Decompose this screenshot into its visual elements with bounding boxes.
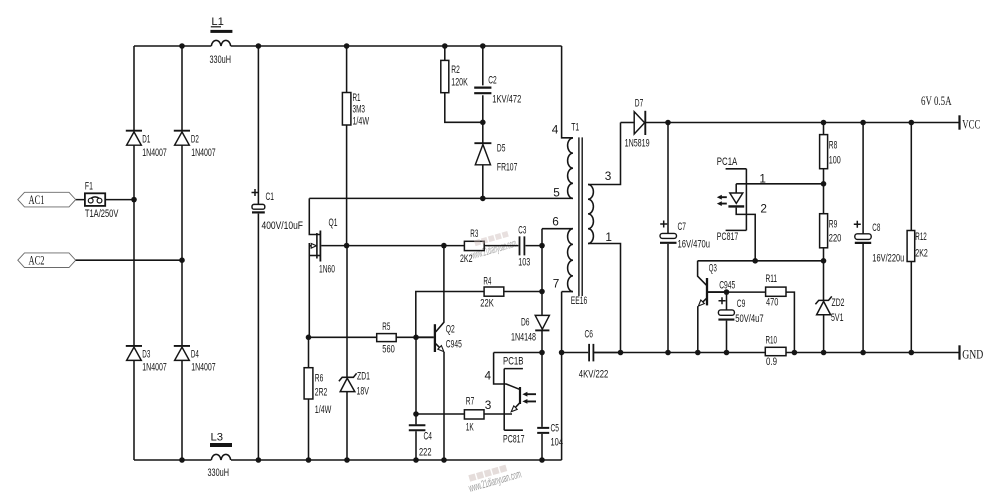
svg-text:16V/470u: 16V/470u bbox=[678, 238, 711, 250]
optocoupler PC1B PC817 bbox=[485, 353, 537, 446]
node GND rail / Q3 emitter bbox=[695, 350, 701, 356]
wire Q3 base line bbox=[727, 291, 766, 293]
node top rail / D2 column bbox=[179, 43, 185, 49]
svg-text:4: 4 bbox=[552, 122, 559, 136]
diode D1 1N4007 bbox=[126, 131, 167, 159]
capacitor C2 1KV/472 bbox=[474, 46, 521, 122]
node Q3 base / C9 bbox=[724, 289, 730, 295]
node GND rail / C9 bbox=[724, 350, 730, 356]
node bottom rail / D4 column bbox=[179, 457, 185, 463]
node VCC rail / C7 bbox=[665, 120, 671, 126]
node Q1 source / R5 / R6 bbox=[306, 335, 312, 341]
resistor R2 120K bbox=[441, 46, 483, 122]
svg-text:C6: C6 bbox=[585, 328, 594, 340]
inductor L3 330uH bbox=[208, 431, 233, 479]
svg-text:C7: C7 bbox=[678, 221, 687, 233]
svg-text:1N4007: 1N4007 bbox=[142, 147, 167, 159]
svg-text:5: 5 bbox=[553, 186, 560, 200]
wire gate line bbox=[321, 245, 464, 247]
svg-text:560: 560 bbox=[382, 344, 395, 356]
svg-text:C1: C1 bbox=[266, 191, 275, 203]
svg-text:220: 220 bbox=[829, 233, 842, 245]
svg-text:330uH: 330uH bbox=[208, 467, 230, 479]
svg-text:AC1: AC1 bbox=[29, 192, 45, 207]
resistor R10 0.9 bbox=[765, 335, 786, 369]
svg-text:VCC: VCC bbox=[962, 116, 980, 131]
svg-text:222: 222 bbox=[419, 447, 432, 459]
node GND rail / pin1 column bbox=[618, 350, 624, 356]
node VCC rail / C8 bbox=[860, 120, 866, 126]
svg-text:1N4148: 1N4148 bbox=[511, 331, 536, 343]
node GND rail / C8 bbox=[860, 350, 866, 356]
svg-text:2R2: 2R2 bbox=[315, 387, 328, 399]
transistor Q2 C945 bbox=[416, 246, 462, 460]
svg-text:5V1: 5V1 bbox=[831, 312, 844, 324]
diode D6 1N4148 bbox=[511, 315, 549, 352]
svg-text:2K2: 2K2 bbox=[915, 248, 928, 260]
svg-text:C8: C8 bbox=[872, 222, 880, 234]
node pin7 riser / C6 / bottom rail bbox=[559, 350, 565, 356]
svg-text:3: 3 bbox=[485, 398, 492, 412]
svg-text:EE16: EE16 bbox=[571, 295, 588, 307]
svg-text:1KV/472: 1KV/472 bbox=[492, 94, 521, 106]
svg-text:Q3: Q3 bbox=[709, 263, 717, 275]
wire D1/D3 column bbox=[133, 46, 135, 460]
svg-text:R11: R11 bbox=[766, 273, 778, 285]
zener ZD1 18V bbox=[339, 246, 370, 460]
capacitor C6 4KV/222 bbox=[562, 328, 621, 380]
node D6 cathode / C5 bbox=[539, 350, 545, 356]
terminal VCC bbox=[960, 115, 981, 131]
svg-text:D5: D5 bbox=[497, 143, 506, 155]
svg-text:4KV/222: 4KV/222 bbox=[579, 368, 609, 380]
svg-text:470: 470 bbox=[766, 297, 778, 309]
svg-text:22K: 22K bbox=[480, 298, 494, 310]
svg-text:100: 100 bbox=[829, 155, 841, 167]
resistor R3 2K2 bbox=[460, 228, 518, 265]
svg-text:D6: D6 bbox=[521, 316, 530, 328]
svg-text:Q1: Q1 bbox=[329, 217, 338, 229]
svg-text:C2: C2 bbox=[488, 75, 497, 87]
transistor Q1 1N60 MOSFET bbox=[309, 198, 337, 337]
wire aux winding node column bbox=[541, 229, 543, 315]
resistor R8 100 bbox=[820, 123, 841, 184]
svg-text:R8: R8 bbox=[829, 140, 838, 152]
svg-text:R2: R2 bbox=[451, 64, 460, 76]
wire top DC rail bbox=[134, 45, 562, 47]
transformer T1 EE16 bbox=[542, 46, 621, 353]
node AC1 junction bbox=[131, 197, 137, 203]
svg-text:R5: R5 bbox=[382, 321, 390, 333]
node C3 / pin6 column bbox=[539, 243, 545, 249]
capacitor C9 50V/4u7 bbox=[718, 292, 763, 352]
svg-text:R9: R9 bbox=[829, 219, 838, 231]
wire GND rail bbox=[594, 352, 960, 354]
resistor R11 470 bbox=[766, 273, 795, 353]
svg-text:1/4W: 1/4W bbox=[353, 116, 370, 128]
capacitor C3 103 bbox=[518, 225, 542, 269]
capacitor C1 400V/10uF bbox=[252, 46, 304, 460]
svg-text:PC1B: PC1B bbox=[503, 355, 524, 367]
wire Q1 drain to transformer pin 5 bbox=[309, 197, 573, 199]
wire PC1B collector rail segment bbox=[494, 352, 542, 354]
svg-text:AC2: AC2 bbox=[29, 253, 45, 268]
node bottom rail / ZD1 bbox=[344, 457, 350, 463]
node top rail / C1 column bbox=[256, 43, 262, 49]
svg-text:R3: R3 bbox=[470, 228, 478, 240]
node GND rail / R12 bbox=[909, 350, 915, 356]
svg-text:16V/220u: 16V/220u bbox=[872, 252, 904, 264]
node R5 / R4 / C4 / Q2 base bbox=[413, 335, 419, 341]
svg-text:6V 0.5A: 6V 0.5A bbox=[921, 93, 952, 108]
svg-text:R4: R4 bbox=[483, 276, 491, 288]
node PC1A pin2 / Q3 line bbox=[752, 258, 758, 264]
wire D2/D4 column bbox=[181, 46, 183, 460]
svg-text:4: 4 bbox=[485, 369, 492, 383]
wire PC1A pin1 line bbox=[736, 183, 823, 185]
svg-text:6: 6 bbox=[552, 215, 559, 229]
svg-text:C3: C3 bbox=[518, 225, 526, 237]
resistor R7 1K bbox=[416, 395, 512, 433]
resistor R4 22K bbox=[416, 276, 542, 338]
wire VCC rail bbox=[645, 122, 959, 124]
resistor R9 220 bbox=[820, 184, 842, 261]
svg-text:C945: C945 bbox=[446, 338, 462, 350]
resistor R1 3M3 bbox=[342, 46, 369, 246]
resistor R5 560 bbox=[377, 321, 397, 356]
resistor R6 2R2 bbox=[304, 337, 331, 460]
node bottom rail / R6 bbox=[306, 457, 312, 463]
node gate line / R1 bbox=[344, 243, 350, 249]
svg-text:R1: R1 bbox=[353, 92, 361, 104]
wire Q3 collector line bbox=[698, 260, 824, 262]
node R8 / R9 / pin1 bbox=[821, 181, 827, 187]
svg-text:C5: C5 bbox=[551, 423, 560, 435]
watermark bottom bbox=[465, 461, 523, 495]
svg-text:R6: R6 bbox=[315, 372, 324, 384]
svg-text:103: 103 bbox=[518, 256, 530, 268]
svg-text:T1: T1 bbox=[571, 122, 579, 134]
watermark center bbox=[468, 229, 518, 262]
terminal GND bbox=[960, 345, 984, 361]
transistor Q3 C945 bbox=[698, 261, 736, 353]
svg-text:Q2: Q2 bbox=[446, 324, 455, 336]
fuse F1 bbox=[85, 181, 119, 221]
diode D7 1N5819 bbox=[621, 98, 650, 150]
capacitor C8 16V/220u bbox=[854, 123, 905, 353]
svg-text:330uH: 330uH bbox=[210, 54, 232, 66]
svg-text:2K2: 2K2 bbox=[460, 253, 473, 265]
svg-text:D4: D4 bbox=[191, 348, 199, 360]
wire primary ground riser / pin7 bbox=[561, 292, 563, 460]
zener ZD2 5V1 bbox=[815, 261, 844, 353]
capacitor C4 222 bbox=[409, 337, 432, 460]
node top rail / R1 bbox=[344, 43, 350, 49]
node VCC rail / R8 bbox=[821, 120, 827, 126]
svg-text:F1: F1 bbox=[85, 181, 93, 193]
svg-text:120K: 120K bbox=[451, 77, 468, 89]
diode D2 1N4007 bbox=[174, 131, 216, 159]
svg-text:0.9: 0.9 bbox=[766, 356, 777, 368]
node drain line / D5 bbox=[480, 196, 486, 202]
diode D3 1N4007 bbox=[126, 346, 167, 374]
node top rail / C2 bbox=[480, 43, 486, 49]
node gate line / Q2 collector bbox=[441, 243, 447, 249]
svg-text:GND: GND bbox=[962, 347, 983, 362]
svg-text:1N4007: 1N4007 bbox=[191, 362, 216, 374]
optocoupler PC1A PC817 bbox=[717, 156, 767, 261]
svg-text:1N4007: 1N4007 bbox=[142, 362, 167, 374]
svg-text:D2: D2 bbox=[191, 134, 199, 146]
svg-text:R7: R7 bbox=[466, 395, 475, 407]
capacitor C5 104 bbox=[537, 353, 563, 461]
svg-text:T1A/250V: T1A/250V bbox=[85, 208, 119, 220]
node bottom rail / C5 bbox=[539, 457, 545, 463]
svg-text:PC1A: PC1A bbox=[717, 156, 738, 168]
svg-text:2: 2 bbox=[760, 202, 767, 216]
wire AC2 node bbox=[76, 259, 182, 261]
resistor R12 2K2 bbox=[907, 123, 928, 353]
node AC2 junction bbox=[179, 257, 185, 263]
wire AC1 node to fuse bbox=[76, 199, 134, 201]
capacitor C7 16V/470u bbox=[660, 123, 710, 353]
svg-text:50V/4u7: 50V/4u7 bbox=[735, 313, 764, 325]
svg-text:1N4007: 1N4007 bbox=[191, 147, 216, 159]
svg-text:1K: 1K bbox=[466, 422, 474, 434]
svg-text:1N5819: 1N5819 bbox=[625, 138, 650, 150]
svg-text:D7: D7 bbox=[635, 98, 644, 110]
svg-text:400V/10uF: 400V/10uF bbox=[262, 220, 304, 232]
svg-text:C9: C9 bbox=[737, 298, 746, 310]
svg-text:PC817: PC817 bbox=[717, 231, 739, 243]
node top rail / R2 bbox=[442, 43, 448, 49]
svg-text:FR107: FR107 bbox=[497, 162, 518, 174]
node bottom rail / C4 bbox=[413, 457, 419, 463]
diode D4 1N4007 bbox=[174, 346, 216, 374]
svg-text:C4: C4 bbox=[424, 431, 433, 443]
svg-text:ZD2: ZD2 bbox=[832, 297, 845, 309]
port AC1 bbox=[18, 192, 76, 207]
svg-text:3M3: 3M3 bbox=[353, 104, 366, 116]
node R7 branch bbox=[413, 411, 419, 417]
wire bottom rail bbox=[134, 459, 562, 461]
svg-text:R12: R12 bbox=[915, 231, 927, 243]
svg-text:18V: 18V bbox=[357, 385, 370, 397]
svg-text:ZD1: ZD1 bbox=[357, 370, 370, 382]
node R2/C2/D5 bbox=[480, 120, 486, 126]
node R4 / D6 anode bbox=[539, 289, 545, 295]
svg-text:L3: L3 bbox=[211, 431, 224, 443]
port AC2 bbox=[18, 253, 76, 268]
svg-text:R10: R10 bbox=[766, 335, 778, 347]
node GND rail / C7 bbox=[665, 350, 671, 356]
svg-text:D1: D1 bbox=[142, 134, 150, 146]
svg-text:3: 3 bbox=[605, 169, 612, 183]
node GND rail / ZD2 bbox=[821, 350, 827, 356]
node bottom rail / Q2 emitter bbox=[441, 457, 447, 463]
inductor L1 bbox=[210, 16, 233, 66]
svg-text:1/4W: 1/4W bbox=[315, 404, 332, 416]
node GND rail / R11 bbox=[792, 350, 798, 356]
wire R5 line Q1 source to Q2 base bbox=[309, 336, 417, 338]
node R9 / ZD2 bbox=[821, 258, 827, 264]
node VCC rail / R12 bbox=[909, 120, 915, 126]
svg-text:7: 7 bbox=[553, 277, 560, 291]
node bottom rail / C1 bbox=[256, 457, 262, 463]
svg-text:D3: D3 bbox=[142, 348, 150, 360]
svg-text:1N60: 1N60 bbox=[319, 264, 335, 276]
svg-text:PC817: PC817 bbox=[503, 433, 525, 445]
svg-text:1: 1 bbox=[605, 230, 612, 244]
diode D5 FR107 bbox=[474, 122, 517, 198]
